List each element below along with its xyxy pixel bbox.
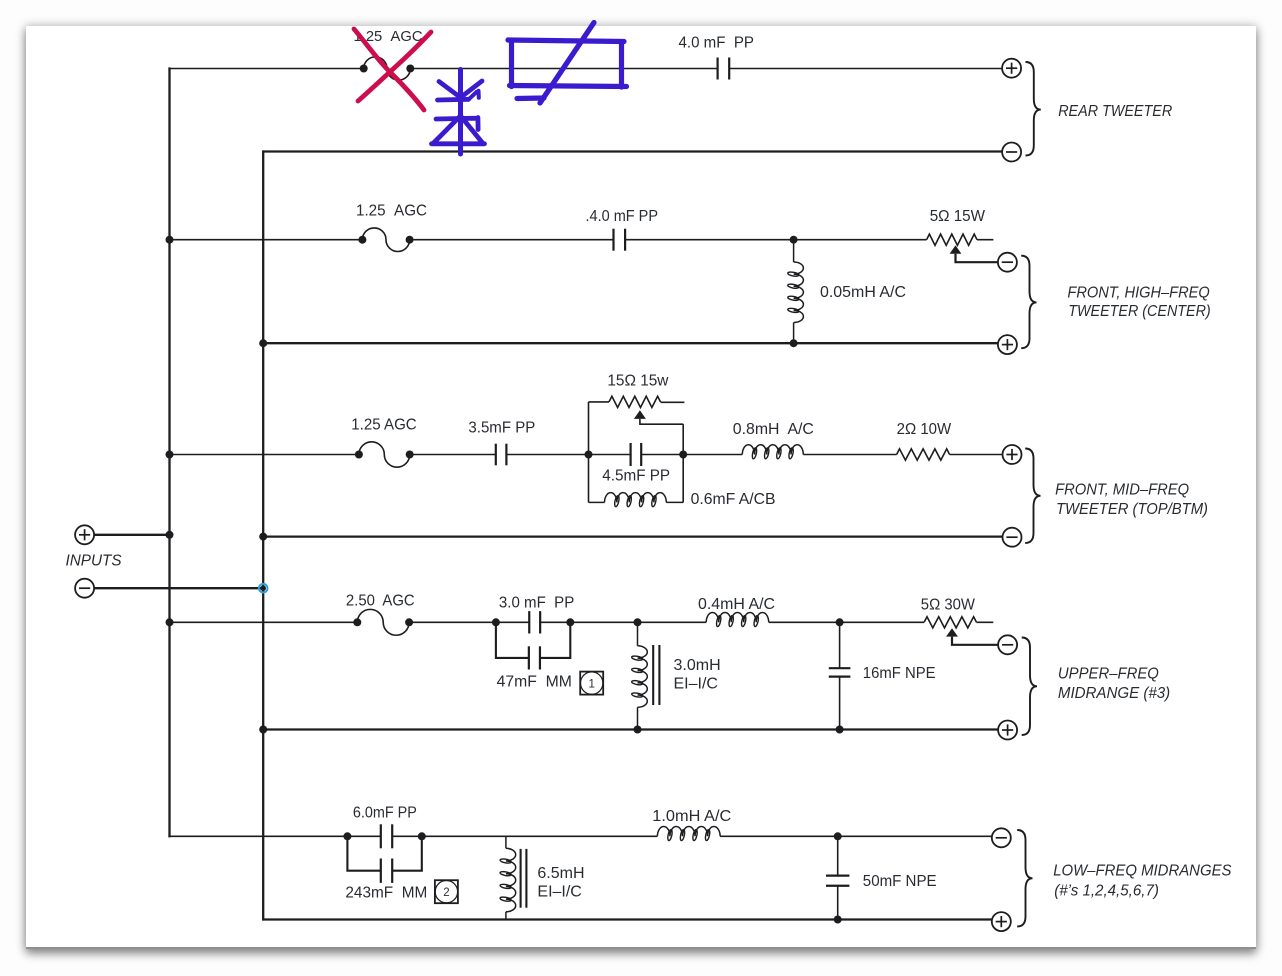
svg-text:47mF MM: 47mF MM [497,674,572,691]
svg-text:5Ω 30W: 5Ω 30W [921,596,976,613]
capacitor C6 47mF MM (lower) [529,646,540,669]
wire - input to bus B [94,587,263,589]
label C10 value 50mF NPE [863,873,937,890]
input terminal + (positive) [75,525,94,544]
svg-text:INPUTS: INPUTS [66,552,122,569]
marker note 1 (square-circle) [580,672,603,695]
junction bus A / row2 [166,236,174,244]
wire row2 top segment b [410,239,614,241]
junction row4 parallel caps right [566,618,574,626]
junction bus A / row4 [166,618,174,626]
wire rheostat R4 wiper to - terminal [952,637,998,645]
svg-text:1: 1 [588,679,594,691]
terminal row1 + output [1002,59,1021,78]
label FRONT, MID-FREQ [1055,481,1189,498]
wire row1 return [263,150,1002,152]
wire row4 top segment c [540,621,706,623]
wire row3 top segment d [641,454,742,456]
rheostat R1 5 ohm 15W [927,234,994,245]
svg-text:4.5mF PP: 4.5mF PP [602,468,670,485]
label fuse F2 value 1.25 AGC [356,202,427,219]
label C5 value 3.0 mF PP [499,594,574,611]
wire row1 top segment a [168,68,363,70]
junction bus B / row3 return [259,533,267,541]
svg-text:3.0 mF PP: 3.0 mF PP [499,594,574,611]
label C2 value .4.0 mF PP [586,208,659,225]
label C7 value 16mF NPE [863,665,936,682]
svg-text:.4.0 mF PP: .4.0 mF PP [586,208,659,225]
svg-text:FRONT, HIGH–FREQ: FRONT, HIGH–FREQ [1067,284,1209,301]
label T1 value 3.0mH [674,657,721,674]
svg-text:2Ω 10W: 2Ω 10W [897,421,952,438]
label fuse F1 value 1.25 AGC [354,28,423,45]
label (#'s 1,2,4,5,6,7) [1054,882,1159,899]
inductor L2 bottom branch of parallel group [605,493,667,507]
input terminal - (negative) [75,579,94,598]
wire row2 top segment a [170,239,363,241]
wire rheostat R2 wiper to right vertical [640,419,683,424]
svg-text:1.0mH A/C: 1.0mH A/C [652,808,731,825]
wire parallel-group right vertical [682,424,684,502]
junction row4 parallel caps left [492,618,500,626]
label T2 value EI-I/C [537,884,581,901]
label fuse F3 value 1.25 AGC [351,416,416,433]
terminal row4 + output [998,721,1017,740]
wire rheostat R1 wiper to - terminal [956,254,999,262]
svg-text:243mF MM: 243mF MM [345,885,427,902]
rheostat R2 15 ohm 15w [609,396,684,407]
svg-text:2.50 AGC: 2.50 AGC [346,593,415,610]
label C9 value 243mF MM [345,885,427,902]
svg-text:(#’s 1,2,4,5,6,7): (#’s 1,2,4,5,6,7) [1054,882,1159,899]
label L1 value 0.05mH A/C [820,284,906,301]
label C8 value 6.0mF PP [353,805,417,822]
label R1 value 5 ohm 15W [930,208,986,225]
wire row5 parallel caps lower branch [347,836,421,870]
label TWEETER (TOP/BTM) [1056,501,1208,518]
svg-text:16mF NPE: 16mF NPE [863,665,936,682]
inductor L3 0.8mH A/C (series) [742,445,803,459]
label C1 value 4.0 mF PP [679,35,755,52]
svg-text:EI–I/C: EI–I/C [674,675,718,692]
rheostat R2 wiper arrow [634,410,646,419]
svg-text:0.6mF A/CB: 0.6mF A/CB [691,491,776,508]
rheostat R4 5 ohm 30W [924,617,993,628]
autotransformer T2 6.5mH EI-I/C [500,836,527,919]
label T2 value 6.5mH [537,865,584,882]
label C3 value 3.5mF PP [468,420,535,437]
label value 0.6mF A/CB [691,491,776,508]
svg-text:6.0mF PP: 6.0mF PP [353,805,417,822]
junction row5 / shunt cap top [834,832,842,840]
marker note 2 (square-circle) [435,880,458,903]
label T1 value EI-I/C [674,675,718,692]
svg-text:LOW–FREQ MIDRANGES: LOW–FREQ MIDRANGES [1053,863,1232,880]
wire row4 top segment b [409,621,529,623]
label UPPER-FREQ [1058,665,1159,682]
label C4 value 4.5mF PP [602,468,670,485]
wire row5 top segment c [720,835,992,837]
svg-text:1.25 AGC: 1.25 AGC [351,416,416,433]
terminal row2 - output [998,253,1017,272]
brace row4 [1022,638,1037,736]
wire row3 top segment c [506,454,630,456]
svg-text:3.5mF PP: 3.5mF PP [468,420,535,437]
fuse F4 2.50 AGC [353,609,413,635]
bus B vertical wire (negative rail) [262,150,264,920]
svg-text:3.0mH: 3.0mH [674,657,721,674]
terminal row4 - output [998,635,1017,654]
junction bus A / row3 [166,451,174,459]
junction row4 / shunt cap top [836,618,844,626]
junction bus B / row2 return [259,339,267,347]
junction row2 / shunt inductor bottom [790,339,798,347]
capacitor C2 .4.0 mF PP [614,229,626,251]
capacitor C7 16mF NPE (shunt) [829,622,851,729]
label L4 value 0.4mH A/C [698,596,775,613]
annotation blue TVS diode sketch [432,70,485,155]
svg-text:MIDRANGE (#3): MIDRANGE (#3) [1058,685,1170,702]
svg-text:2: 2 [443,887,449,899]
svg-text:0.8mH A/C: 0.8mH A/C [733,421,814,438]
fuse F3 1.25 AGC [355,442,414,467]
svg-text:FRONT, MID–FREQ: FRONT, MID–FREQ [1055,481,1189,498]
inductor L1 0.05mH A/C (shunt) [787,240,803,344]
wire parallel-group bottom branch lead right [666,501,683,503]
svg-text:50mF NPE: 50mF NPE [863,873,937,890]
capacitor C5 3.0 mF PP (upper) [529,611,540,633]
wire row2 return [263,342,998,344]
terminal row5 + output [992,912,1011,931]
capacitor C8 6.0mF PP (upper) [381,824,392,848]
svg-text:0.05mH A/C: 0.05mH A/C [820,284,906,301]
wire row3 top segment b [410,454,496,456]
svg-text:TWEETER (TOP/BTM): TWEETER (TOP/BTM) [1056,501,1208,518]
wire row3 top segment e [803,454,896,456]
fuse F1 1.25 AGC (crossed out) [360,57,415,80]
wire row1 top segment b [410,68,717,70]
wire row5 top segment a [168,835,381,837]
svg-text:REAR TWEETER: REAR TWEETER [1058,103,1172,120]
label LOW-FREQ MIDRANGES [1053,863,1232,880]
wire row5 top segment b [392,835,657,837]
junction row5 / shunt cap bottom [834,916,842,924]
terminal row5 - output [992,828,1011,847]
wire row3 top segment f [950,454,1003,456]
terminal row1 - output [1002,143,1021,162]
terminal row3 + output [1003,445,1022,464]
annotation highlight circle (blue) at - input node [259,584,268,593]
junction row5 parallel caps right [418,832,426,840]
label INPUTS [66,552,122,569]
rheostat R1 wiper arrow [950,245,962,253]
svg-text:1.25 AGC: 1.25 AGC [356,202,427,219]
label REAR TWEETER [1058,103,1172,120]
wire parallel-group top branch lead [589,401,610,403]
autotransformer T1 3.0mH EI-I/C [631,622,659,729]
capacitor C4 4.5mF PP (middle branch) [631,443,642,466]
terminal row3 - output [1003,528,1022,547]
label TWEETER (CENTER) [1068,303,1210,320]
wire + input to bus A [94,534,170,536]
svg-text:6.5mH: 6.5mH [537,865,584,882]
inductor L5 1.0mH A/C (series) [657,827,720,841]
wire parallel-group left vertical [588,402,590,503]
label fuse F4 value 2.50 AGC [346,593,415,610]
junction row2 / shunt inductor top [790,236,798,244]
annotation red X over fuse F1 [354,29,431,110]
fuse F2 1.25 AGC [358,228,413,252]
label MIDRANGE (#3) [1058,685,1170,702]
label R2 value 15 ohm 15w [607,373,668,390]
rheostat R4 wiper arrow [946,628,958,636]
svg-text:0.4mH A/C: 0.4mH A/C [698,596,775,613]
junction bus B / row4 return [259,726,267,734]
inductor L4 0.4mH A/C (series) [706,613,769,627]
junction row3 parallel-group left [585,451,593,459]
brace row5 [1017,830,1032,927]
bus A vertical wire (positive rail) [168,67,170,837]
capacitor C3 3.5mF PP [496,444,507,466]
capacitor C1 4.0 mF PP [718,58,730,80]
brace row3 [1025,449,1040,544]
svg-text:UPPER–FREQ: UPPER–FREQ [1058,665,1159,682]
wire parallel-group bottom branch lead left [589,501,605,503]
wire row4 return [263,728,998,730]
junction row4 / autotransformer top [634,618,642,626]
wire row4 parallel caps lower branch [496,622,570,658]
label L5 value 1.0mH A/C [652,808,731,825]
junction row4 / shunt cap bottom [836,726,844,734]
junction bus B / - input [260,585,266,591]
resistor R3 2 ohm 10W [897,449,950,460]
wire row4 top segment a [170,621,358,623]
capacitor C10 50mF NPE (shunt) [826,836,849,919]
junction row3 parallel-group right [679,451,687,459]
wire row3 top segment a [170,454,359,456]
wire row1 top segment c [730,68,1002,70]
label R3 value 2 ohm 10W [897,421,952,438]
svg-text:15Ω 15w: 15Ω 15w [607,373,668,390]
brace row2 [1021,256,1036,349]
label FRONT, HIGH-FREQ [1067,284,1209,301]
brace row1 [1026,62,1041,156]
wire row5 return [263,918,992,920]
junction bus A / + input [166,531,174,539]
wire row2 top segment c [625,239,927,241]
svg-text:5Ω 15W: 5Ω 15W [930,208,986,225]
junction row4 / autotransformer bottom [634,726,642,734]
terminal row2 + output [998,335,1017,354]
wire row3 return [263,535,1002,537]
junction row5 parallel caps left [343,832,351,840]
svg-text:TWEETER (CENTER): TWEETER (CENTER) [1068,303,1210,320]
annotation blue thermistor sketch (slashed rectangle) [508,23,627,104]
svg-text:EI–I/C: EI–I/C [537,884,581,901]
label C6 value 47mF MM [497,674,572,691]
capacitor C9 243mF MM (lower) [381,859,392,883]
label R4 value 5 ohm 30W [921,596,976,613]
svg-text:4.0 mF PP: 4.0 mF PP [679,35,755,52]
label L3 value 0.8mH A/C [733,421,814,438]
wire row4 top segment d [769,621,924,623]
